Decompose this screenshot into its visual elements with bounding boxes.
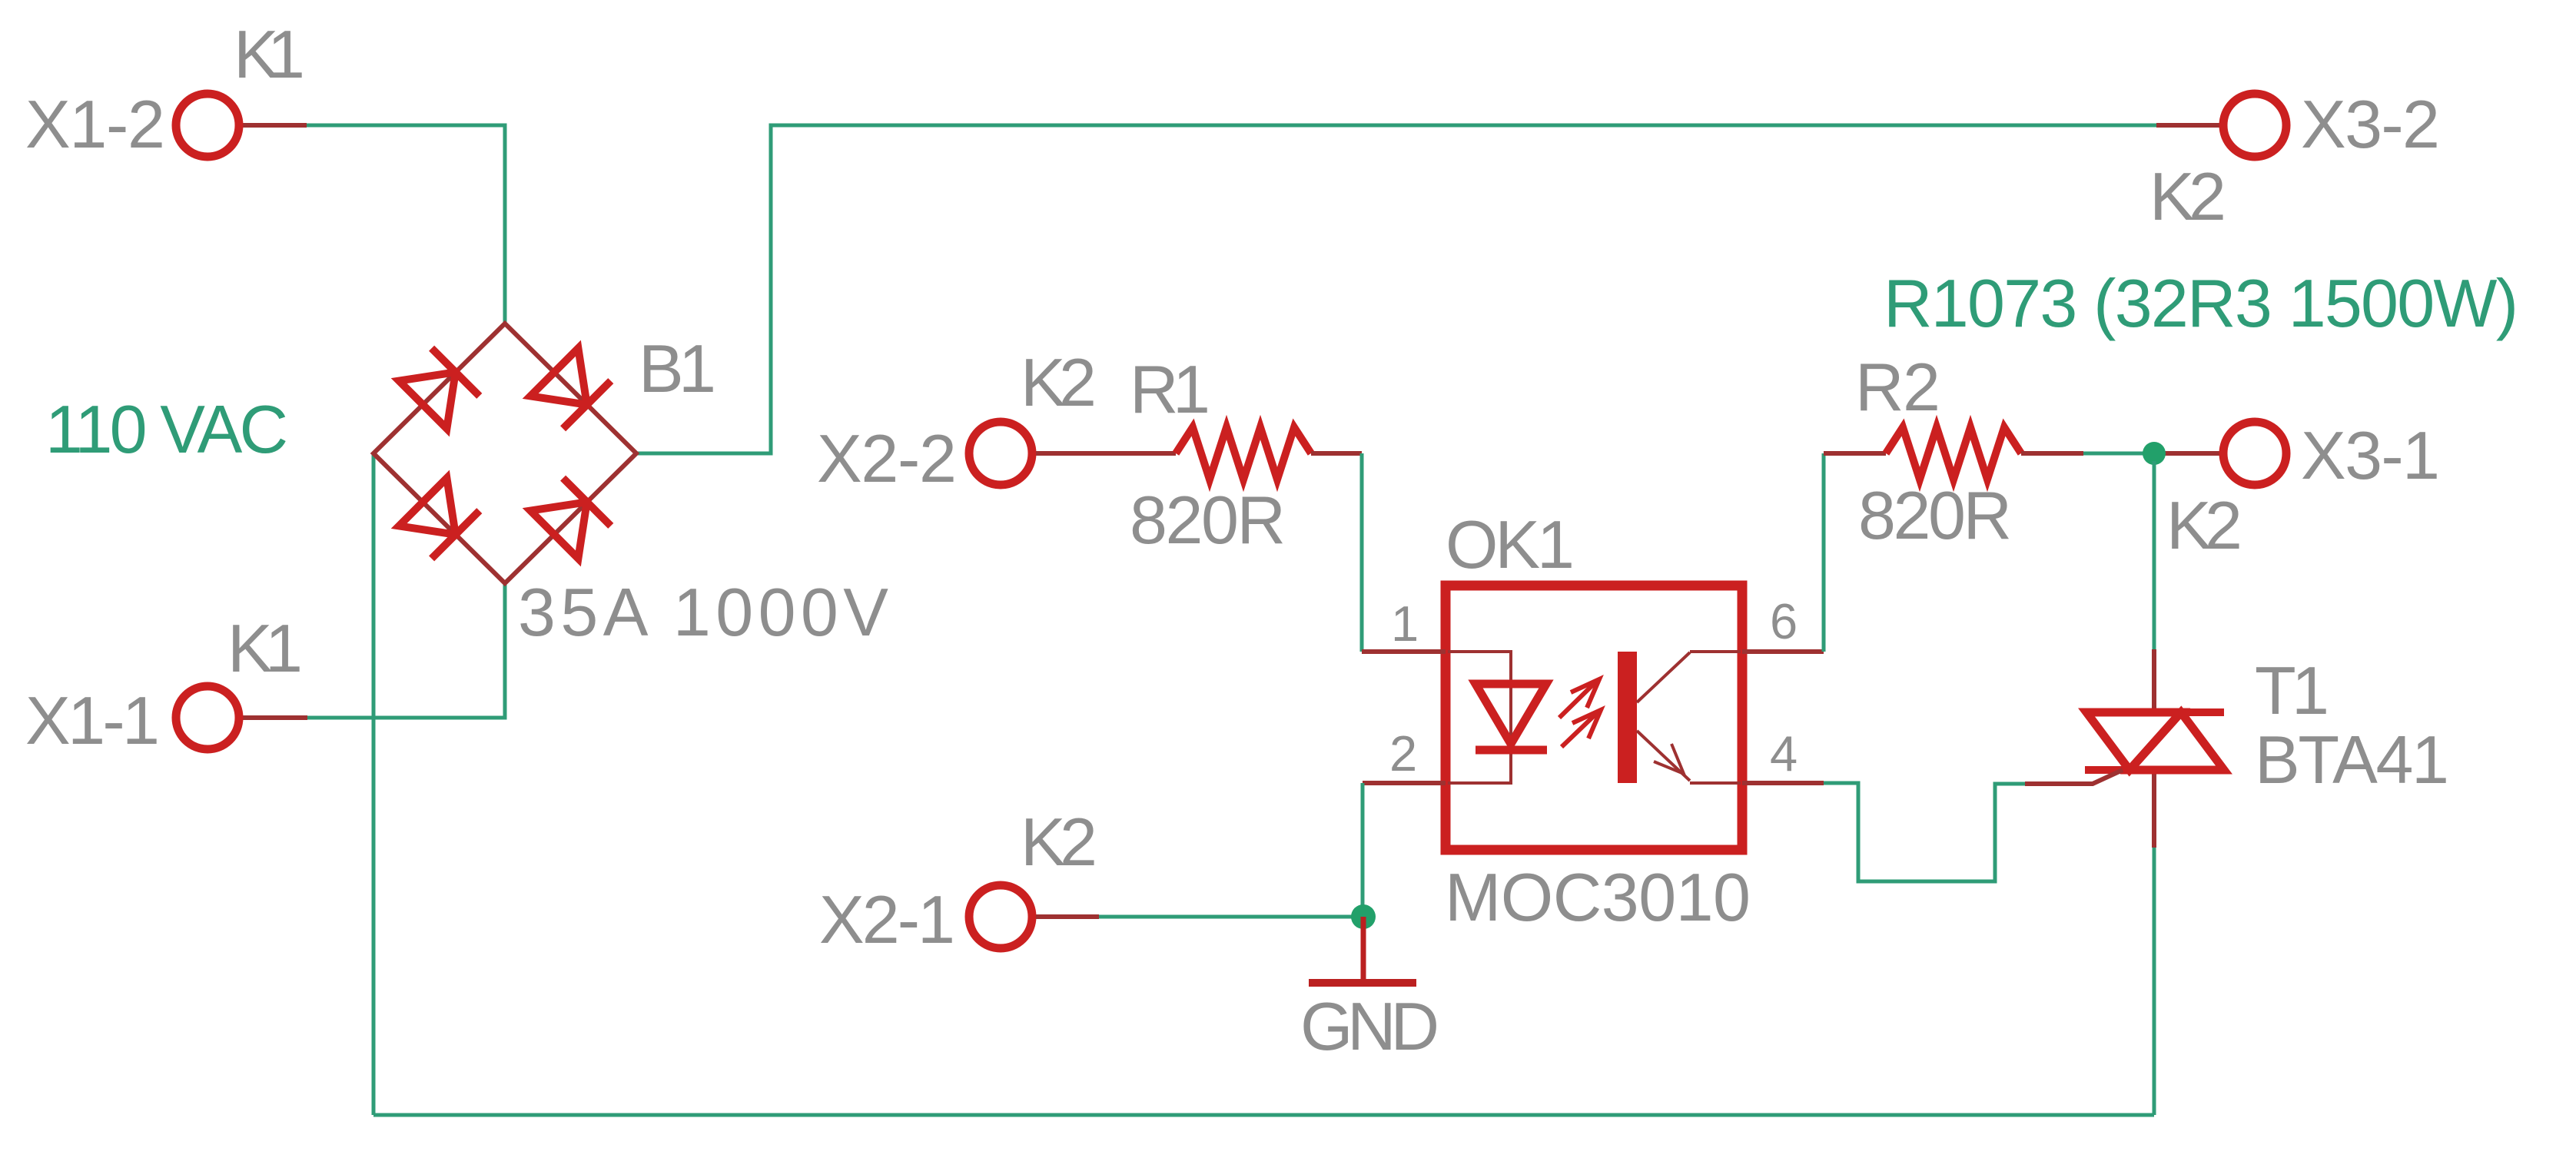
- triac T1 bottom bar: [2085, 766, 2224, 774]
- svg-text:OK1: OK1: [1446, 506, 1575, 582]
- ground symbol bar: [1309, 979, 1416, 987]
- svg-text:GND: GND: [1300, 988, 1439, 1064]
- OK1 emitter diagonal with arrowhead: [1637, 731, 1690, 781]
- resistor R2 left lead: [1824, 451, 1886, 456]
- svg-text:X1-2: X1-2: [25, 86, 165, 162]
- svg-text:BTA41: BTA41: [2255, 722, 2449, 798]
- wire X2-1 to GND node: [1099, 915, 1363, 919]
- OK1 pin 1: [1362, 649, 1446, 654]
- svg-text:X3-1: X3-1: [2301, 417, 2440, 493]
- terminal X2-2: [969, 422, 1032, 485]
- wire bridge bottom corner to X1-1: [307, 583, 505, 718]
- svg-text:MOC3010: MOC3010: [1445, 859, 1751, 935]
- bridge diode D-bottomleft: [399, 478, 480, 559]
- wire OK1 pin 4 to triac gate: [1824, 783, 2025, 881]
- svg-text:2: 2: [1389, 725, 1417, 781]
- optocoupler OK1 box: [1446, 586, 1742, 850]
- svg-text:K2: K2: [1021, 804, 1097, 880]
- terminal X2-1: [969, 885, 1032, 948]
- wire bottom rail: [373, 1113, 2154, 1117]
- OK1 inner wiring right bottom: [1690, 781, 1741, 785]
- pin stub X1-2: [243, 123, 307, 128]
- wire bottom rail up to triac MT1: [2153, 848, 2156, 1115]
- wire OK1 pin 6 up to R2: [1822, 453, 1826, 652]
- triac T1 top bar: [2085, 708, 2224, 716]
- resistor R2 zigzag: [1886, 427, 2021, 479]
- svg-text:K2: K2: [1021, 344, 1097, 420]
- resistor R2 right lead: [2021, 451, 2083, 456]
- triac T1 gate lead: [2025, 770, 2123, 784]
- wire GND node up to OK1 pin 2: [1361, 783, 1365, 917]
- svg-text:R1073 (32R3 1500W): R1073 (32R3 1500W): [1884, 265, 2518, 341]
- svg-text:R1: R1: [1130, 351, 1210, 427]
- terminal X3-1: [2223, 422, 2286, 485]
- svg-text:R2: R2: [1855, 349, 1940, 425]
- svg-text:820R: 820R: [1858, 477, 2012, 553]
- svg-text:X2-2: X2-2: [817, 420, 957, 496]
- pin stub X2-2 and R1 left lead: [1036, 451, 1176, 456]
- resistor R1 right lead: [1311, 451, 1362, 456]
- triac T1 right triangle: [2130, 712, 2224, 770]
- wire R1 to OK1 pin 1: [1360, 453, 1364, 652]
- svg-text:K2: K2: [2166, 487, 2242, 563]
- wire X1-2 to bridge top corner: [307, 125, 505, 324]
- svg-text:K2: K2: [2149, 158, 2226, 234]
- svg-text:1: 1: [1391, 596, 1419, 652]
- wire bridge right corner to X3-2 (top net): [636, 125, 2156, 453]
- triac T1 MT1 lead: [2152, 771, 2156, 848]
- svg-text:K1: K1: [234, 16, 305, 92]
- terminal X1-2: [176, 94, 239, 157]
- OK1 inner wiring left: [1448, 652, 1511, 783]
- svg-text:35A 1000V: 35A 1000V: [518, 574, 888, 650]
- pin stub X3-2: [2156, 123, 2219, 128]
- bridge diode D-topleft: [399, 348, 480, 429]
- OK1 LED cathode bar: [1476, 746, 1547, 755]
- svg-text:K1: K1: [227, 610, 303, 686]
- triac T1 left triangle: [2086, 712, 2181, 770]
- OK1 pin 2: [1363, 781, 1446, 785]
- svg-text:X3-2: X3-2: [2301, 86, 2440, 162]
- OK1 pin 4: [1742, 781, 1824, 785]
- OK1 LED triangle: [1476, 684, 1546, 744]
- svg-text:110 VAC: 110 VAC: [45, 391, 288, 467]
- svg-text:6: 6: [1770, 593, 1798, 649]
- junction node K2 at X3-1: [2143, 442, 2166, 465]
- OK1 light arrow lower: [1562, 710, 1601, 747]
- svg-text:820R: 820R: [1130, 482, 1286, 558]
- svg-text:4: 4: [1770, 725, 1798, 781]
- OK1 inner wiring right top: [1690, 650, 1741, 653]
- terminal X3-2: [2223, 94, 2286, 157]
- OK1 collector diagonal: [1637, 652, 1690, 702]
- pin stub X3-1: [2154, 451, 2219, 456]
- bridge diode D-bottomright: [530, 478, 611, 559]
- bridge diode D-topright: [530, 348, 611, 429]
- pin stub X2-1: [1036, 914, 1099, 919]
- ground symbol stem: [1361, 917, 1366, 981]
- terminal X1-1: [176, 686, 239, 749]
- pin stub X1-1: [243, 715, 307, 720]
- svg-text:T1: T1: [2255, 652, 2329, 728]
- svg-text:B1: B1: [639, 330, 716, 406]
- wire R2 to X3-1 node: [2083, 452, 2154, 456]
- wire bridge left corner down to bottom rail: [372, 453, 376, 1115]
- wire X3-1 node down to triac MT2: [2153, 461, 2156, 649]
- triac T1 MT2 lead: [2152, 649, 2156, 712]
- OK1 phototriac bar: [1618, 652, 1637, 783]
- svg-text:X1-1: X1-1: [25, 682, 160, 758]
- OK1 pin 6: [1742, 649, 1824, 654]
- OK1 light arrow upper: [1559, 679, 1599, 718]
- junction node GND: [1351, 904, 1376, 929]
- bridge rectifier B1 diamond outline: [373, 324, 636, 583]
- resistor R1 zigzag: [1176, 427, 1311, 479]
- svg-text:X2-1: X2-1: [819, 881, 955, 957]
